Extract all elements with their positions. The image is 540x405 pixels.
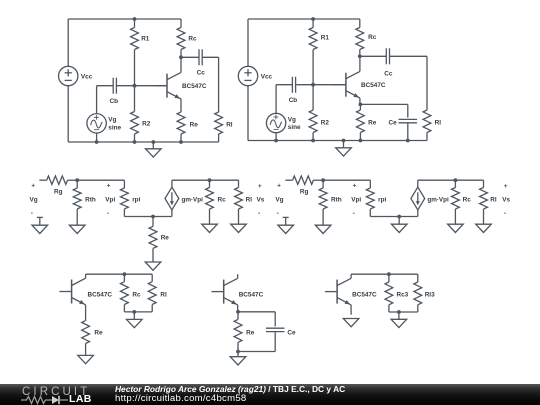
label + Vs - left model <box>257 183 265 217</box>
wire: bottom rail circuit 2 <box>248 140 427 142</box>
label Rc left model <box>218 197 227 204</box>
svg-text:rpi: rpi <box>132 197 140 204</box>
svg-text:sine: sine <box>288 124 301 131</box>
label Cb circuit 1 <box>110 98 119 105</box>
svg-text:gm·Vpi: gm·Vpi <box>182 196 204 203</box>
wire: left rail lower circuit 2 <box>247 86 249 141</box>
node: collector junction circuit 1 <box>179 55 183 59</box>
node: top Rc3 junction bottom-right <box>387 272 391 276</box>
ground circuit 2 <box>336 141 352 157</box>
capacitor Cc circuit 1 <box>181 49 219 65</box>
svg-text:Rl: Rl <box>226 121 233 128</box>
node: ground junction right model <box>397 215 401 219</box>
ground under Vg left model <box>32 217 48 233</box>
wire: top rail bottom-left <box>86 273 153 275</box>
svg-text:Vcc: Vcc <box>81 73 93 80</box>
wire: bottom rpi to gm right model <box>370 216 418 218</box>
svg-text:+: + <box>504 183 508 190</box>
capacitor Cc circuit 2 <box>360 48 427 64</box>
resistor Rl bottom-left <box>148 274 156 312</box>
svg-text:Vcc: Vcc <box>261 73 273 80</box>
capacitor Cb circuit 1 <box>97 78 117 94</box>
svg-text:R1: R1 <box>141 36 150 43</box>
svg-text:BC547C: BC547C <box>239 292 264 299</box>
svg-text:Ce: Ce <box>287 330 296 337</box>
resistor R1 circuit 2 <box>309 19 317 85</box>
ground under Re left model <box>145 262 161 270</box>
wire: bottom rail circuit 1 <box>68 141 218 143</box>
svg-text:Re: Re <box>94 330 103 337</box>
resistor Rl right model <box>480 180 488 224</box>
ground under Re bottom-left <box>78 355 94 363</box>
resistor Rl3 bottom-right <box>414 274 422 312</box>
capacitor Ce circuit 2 <box>399 119 418 140</box>
svg-text:Vg: Vg <box>288 116 296 123</box>
label BC547C bottom-left <box>88 292 113 299</box>
transistor Q3 BC547C bottom-left <box>59 274 85 320</box>
label rpi left model <box>132 197 140 204</box>
label Ce circuit 2 <box>389 120 398 127</box>
node: emitter junction bottom-middle <box>236 310 240 314</box>
node: ground junction bottom-middle <box>236 350 240 354</box>
label BC547C bottom-right <box>352 292 377 299</box>
label BC547C circuit 1 <box>182 83 207 90</box>
resistor Re left model <box>149 217 157 263</box>
svg-text:Rth: Rth <box>331 197 342 204</box>
resistor Re bottom-left <box>82 321 90 356</box>
source V1 Vcc circuit 1 <box>58 66 77 85</box>
svg-text:Cc: Cc <box>197 70 206 77</box>
svg-text:+: + <box>31 182 35 189</box>
label Ce bottom-middle <box>287 330 296 337</box>
node: emitter junction circuit 2 <box>359 103 363 107</box>
label Vcc circuit 2 <box>261 73 273 80</box>
label Rc circuit 2 <box>368 34 377 41</box>
svg-text:R2: R2 <box>321 120 330 127</box>
label Re left model <box>161 234 170 241</box>
svg-text:rpi: rpi <box>378 197 386 204</box>
capacitor Ce bottom-middle <box>266 328 285 351</box>
svg-text:Cb: Cb <box>110 98 119 105</box>
label + Vs - right model <box>502 183 510 217</box>
label Vg sine circuit 1 <box>108 117 121 132</box>
svg-text:-: - <box>31 210 33 217</box>
svg-text:Rl: Rl <box>435 120 442 127</box>
label Re bottom-middle <box>246 330 255 337</box>
label Rth right model <box>331 197 342 204</box>
svg-text:Re: Re <box>368 120 377 127</box>
resistor Rc bottom-left <box>121 274 129 312</box>
node: bottom ground junction circuit 1 <box>151 140 155 144</box>
resistor rpi left model <box>121 188 129 217</box>
label + Vpi - left model <box>105 182 115 217</box>
svg-text:Cc: Cc <box>384 71 393 78</box>
node: top Rc junction left model <box>208 178 212 182</box>
label gm-Vpi right model <box>427 196 449 203</box>
node: Rg-Rth junction left model <box>75 178 79 182</box>
node: top Rc junction bottom-left <box>123 272 127 276</box>
svg-text:Rl3: Rl3 <box>425 292 435 299</box>
node: ground junction bottom-right <box>397 310 401 314</box>
node: ground junction bottom-left <box>132 310 136 314</box>
svg-text:Re: Re <box>161 234 170 241</box>
node: collector junction circuit 2 <box>358 54 362 58</box>
ground under Vg right model <box>278 217 294 233</box>
wire: bottom rail bottom-middle <box>238 351 275 353</box>
svg-text:+: + <box>258 183 262 190</box>
resistor Re circuit 1 <box>177 112 185 142</box>
svg-text:Re: Re <box>246 330 255 337</box>
svg-text:-: - <box>277 210 279 217</box>
svg-text:Rc: Rc <box>218 197 227 204</box>
svg-text:-: - <box>258 210 260 217</box>
node: bottom Ce junction circuit 2 <box>406 139 410 143</box>
node: Re junction left model <box>151 215 155 219</box>
wire: base node circuit 1 <box>116 85 167 87</box>
node: top junction R1 circuit 2 <box>311 17 315 21</box>
label Rth left model <box>85 197 96 204</box>
label Rc3 bottom-right <box>397 292 409 299</box>
source Vg sine circuit 2 <box>266 113 285 132</box>
resistor R1 circuit 1 <box>131 19 139 86</box>
label BC547C bottom-middle <box>239 292 264 299</box>
resistor Rc left model <box>206 180 214 224</box>
dependent source gm-Vpi left model <box>165 180 179 216</box>
label Rl circuit 2 <box>435 120 442 127</box>
dependent source gm-Vpi right model <box>411 180 425 216</box>
label Rl3 bottom-right <box>425 292 435 299</box>
transistor Q1 BC547C circuit 1 <box>155 57 181 112</box>
node: bottom Re junction circuit 1 <box>179 140 183 144</box>
transistor Q4 BC547C bottom-middle <box>212 274 238 312</box>
resistor Rth right model <box>319 180 327 225</box>
transistor Q2 BC547C circuit 2 <box>334 56 360 104</box>
label Re circuit 2 <box>368 120 377 127</box>
svg-text:-: - <box>504 210 506 217</box>
svg-text:BC547C: BC547C <box>361 82 386 89</box>
label R2 circuit 1 <box>142 120 151 127</box>
svg-text:Rc3: Rc3 <box>397 292 409 299</box>
svg-text:R2: R2 <box>142 120 151 127</box>
ground under Rc left model <box>202 224 218 232</box>
wire: top to rpi left model <box>77 180 124 188</box>
svg-text:Vs: Vs <box>502 197 510 204</box>
label Rc bottom-left <box>132 292 141 299</box>
label R1 circuit 2 <box>321 35 330 42</box>
resistor Rg left model <box>39 176 77 184</box>
label BC547C circuit 2 <box>361 82 386 89</box>
svg-text:Rc: Rc <box>368 34 377 41</box>
svg-text:+: + <box>107 182 111 189</box>
wire: Vg to Cb circuit 1 <box>96 86 98 114</box>
node: bottom ground junction circuit 2 <box>342 139 346 143</box>
source V2 Vcc circuit 2 <box>238 66 257 85</box>
node: bottom R2 junction circuit 2 <box>311 139 315 143</box>
label + Vg - port right model <box>275 182 283 217</box>
svg-text:BC547C: BC547C <box>182 83 207 90</box>
svg-text:Vs: Vs <box>257 197 265 204</box>
svg-text:-: - <box>107 210 109 217</box>
label Cc circuit 2 <box>384 71 393 78</box>
node: bottom Vg junction circuit 1 <box>95 140 99 144</box>
svg-text:+: + <box>353 182 357 189</box>
label Rc circuit 1 <box>188 36 197 43</box>
resistor R2 circuit 2 <box>309 85 317 141</box>
svg-text:Re: Re <box>190 121 199 128</box>
ground bottom-left Rc-Rl <box>127 312 143 328</box>
svg-text:Rl: Rl <box>246 197 253 204</box>
node: top junction R1 circuit 1 <box>133 17 137 21</box>
transistor Q5 BC547C bottom-right <box>325 274 351 315</box>
resistor Re bottom-middle <box>234 312 242 352</box>
node: base junction circuit 1 <box>133 84 137 88</box>
resistor Rc circuit 2 <box>356 19 364 56</box>
node: bottom Re junction circuit 2 <box>359 139 363 143</box>
svg-text:gm·Vpi: gm·Vpi <box>427 196 449 203</box>
wire: Cc to Rl circuit 2 <box>426 56 428 110</box>
node: bottom R2 junction circuit 1 <box>133 140 137 144</box>
label rpi right model <box>378 197 386 204</box>
wire: left rail upper circuit 2 <box>247 19 249 66</box>
wire: top rail bottom-right <box>351 273 418 275</box>
svg-text:Vg: Vg <box>108 117 116 124</box>
label R2 circuit 2 <box>321 120 330 127</box>
ground bottom-middle <box>230 352 246 366</box>
svg-text:Rc: Rc <box>132 292 141 299</box>
resistor R2 circuit 1 <box>131 86 139 142</box>
svg-text:R1: R1 <box>321 35 330 42</box>
resistor Rg right model <box>285 176 323 184</box>
label Re circuit 1 <box>190 121 199 128</box>
wire: top rail circuit 1 <box>68 18 181 20</box>
svg-text:Rl: Rl <box>160 292 167 299</box>
svg-text:Vpi: Vpi <box>351 197 361 204</box>
svg-text:sine: sine <box>108 124 121 131</box>
wire: Vg to bottom circuit 2 <box>275 133 277 141</box>
wire: base node circuit 2 <box>296 84 346 86</box>
label + Vpi - right model <box>351 182 361 217</box>
wire: Vg to bottom circuit 1 <box>96 133 98 142</box>
label Re bottom-left <box>94 330 103 337</box>
svg-text:Vg: Vg <box>275 197 283 204</box>
ground under Rc right model <box>448 224 464 232</box>
svg-text:+: + <box>277 182 281 189</box>
label Rl left model <box>246 197 253 204</box>
label Rc right model <box>463 197 472 204</box>
label Rg left model <box>54 189 63 196</box>
resistor Rl left model <box>235 180 243 224</box>
resistor Rc3 bottom-right <box>385 274 393 312</box>
label gm-Vpi left model <box>182 196 204 203</box>
wire: bottom rail bottom-right <box>389 311 418 313</box>
ground under emitter bottom-right <box>343 319 359 327</box>
label Cc circuit 1 <box>197 70 206 77</box>
ground under Rth right model <box>315 225 331 233</box>
label Rl right model <box>490 197 497 204</box>
wire: top to rpi right model <box>323 180 370 188</box>
svg-text:BC547C: BC547C <box>352 292 377 299</box>
label R1 circuit 1 <box>141 36 150 43</box>
resistor Re circuit 2 <box>357 104 365 140</box>
label Rl bottom-left <box>160 292 167 299</box>
svg-text:-: - <box>353 210 355 217</box>
wire: top gm to Rl right model <box>418 179 484 181</box>
label Rl circuit 1 <box>226 121 233 128</box>
label + Vg - port left model <box>30 182 38 217</box>
wire: Vg to Cb circuit 2 <box>275 85 277 114</box>
svg-text:Rl: Rl <box>490 197 497 204</box>
ground bottom-right <box>391 312 407 328</box>
source Vg sine circuit 1 <box>87 114 106 133</box>
wire: emitter to Ce bottom-middle <box>238 312 275 327</box>
svg-text:Rg: Rg <box>54 189 63 196</box>
resistor Rl circuit 2 <box>423 110 431 141</box>
svg-text:Rth: Rth <box>85 197 96 204</box>
svg-text:Rc: Rc <box>463 197 472 204</box>
capacitor Cb circuit 2 <box>276 77 296 93</box>
ground under Rl left model <box>231 224 247 232</box>
node: top Rc junction right model <box>454 178 458 182</box>
label Vg sine circuit 2 <box>288 116 301 131</box>
wire: top rail circuit 2 <box>248 18 360 20</box>
svg-text:Ce: Ce <box>389 120 398 127</box>
resistor Rc right model <box>452 180 460 224</box>
wire: emitter to Ce circuit 2 <box>360 104 407 117</box>
wire: left rail lower circuit 1 <box>67 86 69 142</box>
wire: top gm to Rl left model <box>172 179 239 181</box>
node: Rg-Rth junction right model <box>321 178 325 182</box>
label Vcc circuit 1 <box>81 73 93 80</box>
wire: Cc to Rl circuit 1 <box>218 57 220 112</box>
svg-text:BC547C: BC547C <box>88 292 113 299</box>
node: bottom Vg junction circuit 2 <box>274 139 278 143</box>
resistor Rl circuit 1 <box>215 112 223 142</box>
svg-text:Rg: Rg <box>300 189 309 196</box>
wire: bottom rpi to gm left model <box>124 216 171 218</box>
label Cb circuit 2 <box>289 97 298 104</box>
wire: bottom rail bottom-left <box>124 311 152 313</box>
svg-text:Cb: Cb <box>289 97 298 104</box>
resistor rpi right model <box>366 188 374 217</box>
svg-text:Rc: Rc <box>188 36 197 43</box>
resistor Rc circuit 1 <box>177 19 185 57</box>
ground under Rth left model <box>69 225 85 233</box>
svg-text:Vpi: Vpi <box>105 197 115 204</box>
resistor Rth left model <box>73 180 81 225</box>
ground under bottom wire right model <box>391 217 407 233</box>
ground circuit 1 <box>146 142 162 157</box>
svg-text:Vg: Vg <box>30 197 38 204</box>
ground under Rl right model <box>476 224 492 232</box>
label Rg right model <box>300 189 309 196</box>
node: base junction circuit 2 <box>311 83 315 87</box>
wire: left rail upper circuit 1 <box>67 19 69 66</box>
